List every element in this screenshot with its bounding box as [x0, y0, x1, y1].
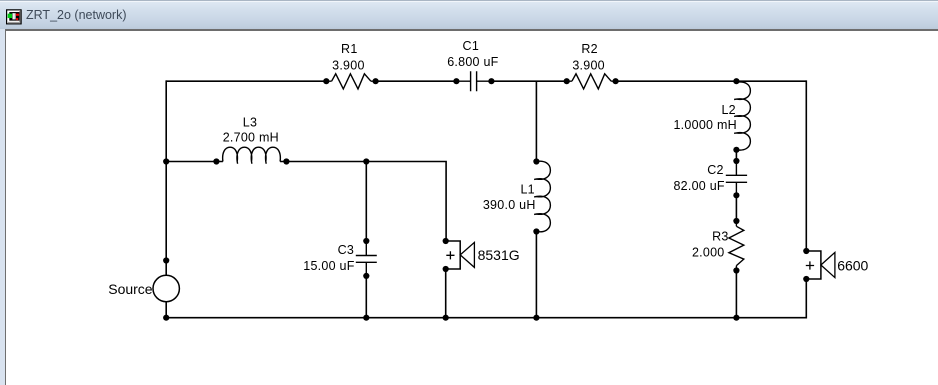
svg-text:1.0000 mH: 1.0000 mH [673, 118, 736, 132]
application icon [6, 9, 22, 25]
svg-text:3.900: 3.900 [332, 58, 365, 72]
label C1 [447, 39, 498, 69]
junction dot R3 bottom [733, 267, 739, 273]
junction dot R1 right [373, 78, 379, 84]
wire right riser from bottom rail to tweeter minus [805, 279, 807, 319]
wire L1 top stub [535, 81, 537, 161]
speaker U2 6600 symbol [806, 251, 835, 279]
junction dot L3 right [283, 158, 289, 164]
resistor R3 [729, 221, 744, 271]
wire top rail C1-R2 segment [491, 80, 566, 82]
junction dot U2 minus [803, 276, 809, 282]
junction dot node left mid [163, 158, 169, 164]
junction dot U1 minus [443, 266, 449, 272]
svg-text:390.0 uH: 390.0 uH [483, 198, 536, 212]
wire C3 branch lower [365, 276, 367, 318]
label L3 [223, 115, 279, 144]
window title text [26, 8, 127, 22]
junction dot U2 plus [803, 248, 809, 254]
wire source stubs [165, 261, 167, 318]
window title bar [0, 0, 938, 29]
junction dot C1 left [453, 78, 459, 84]
inductor L2 [734, 82, 750, 150]
svg-text:L2: L2 [721, 103, 735, 117]
svg-text:L1: L1 [520, 182, 534, 196]
junction dot rail C3 [363, 315, 369, 321]
junction dot source bottom [163, 315, 169, 321]
junction dot L2 top [733, 78, 739, 84]
svg-text:6.800 uF: 6.800 uF [447, 55, 498, 69]
wire top rail left segment [166, 80, 326, 82]
wire top rail R1-C1 segment [376, 80, 457, 82]
svg-text:C3: C3 [338, 243, 354, 257]
junction dot rail U1 [443, 315, 449, 321]
junction dot rail R3 [733, 315, 739, 321]
label R3 [692, 229, 729, 259]
capacitor C1 [456, 71, 491, 91]
capacitor C2 [726, 161, 747, 195]
junction dot L1 bottom [533, 228, 539, 234]
svg-text:Source: Source [108, 281, 153, 297]
wire 8531G to bottom rail [445, 269, 447, 318]
wire bottom rail [166, 317, 806, 319]
capacitor C3 [356, 241, 377, 276]
wire top rail R2 to right corner [616, 80, 807, 82]
speaker U1 8531G symbol [446, 241, 475, 269]
svg-text:3.900: 3.900 [572, 58, 605, 72]
junction dot C2 bottom [733, 192, 739, 198]
junction dot C1 right [488, 78, 494, 84]
svg-text:8531G: 8531G [478, 247, 520, 263]
junction dot C3 bottom [363, 273, 369, 279]
junction dot L1 top [533, 158, 539, 164]
wire C3 branch upper [365, 162, 367, 242]
junction dot R2 right [613, 78, 619, 84]
label C2 [673, 163, 724, 193]
wire L2-C2 segment [735, 150, 737, 161]
wire C2-R3 segment [735, 195, 737, 221]
inductor L1 [534, 161, 550, 232]
label L1 [483, 182, 536, 212]
source V1 circle [153, 275, 179, 301]
junction dot C3 top [363, 238, 369, 244]
junction dot rail L1 [533, 315, 539, 321]
wire L1 to bottom rail [535, 232, 537, 318]
resistor R2 [567, 74, 616, 89]
svg-text:2.000: 2.000 [692, 245, 725, 259]
canvas top border [5, 29, 938, 31]
wire middle node horizontal (L3 output) [166, 162, 446, 242]
label R1 [332, 42, 365, 72]
svg-text:2.700 mH: 2.700 mH [223, 130, 279, 144]
canvas left border [5, 29, 7, 385]
junction dot source top [163, 257, 169, 263]
window left frame [0, 29, 5, 385]
label R2 [572, 42, 605, 72]
junction dot L2 bottom [733, 147, 739, 153]
wire left vertical [165, 80, 167, 260]
junction dot node mid T [363, 158, 369, 164]
junction dot R2 left [564, 78, 570, 84]
junction dot U1 plus [443, 238, 449, 244]
svg-text:82.00 uF: 82.00 uF [673, 179, 724, 193]
junction dot R3 top [733, 218, 739, 224]
svg-text:R1: R1 [341, 42, 357, 56]
wire R3 to bottom rail [735, 271, 737, 318]
junction dot C2 top [733, 158, 739, 164]
junction dot R1 left [323, 78, 329, 84]
resistor R1 [326, 74, 375, 89]
svg-text:R3: R3 [712, 229, 728, 243]
svg-text:L3: L3 [243, 115, 257, 129]
svg-text:C1: C1 [463, 39, 479, 53]
svg-text:R2: R2 [581, 42, 597, 56]
svg-text:15.00 uF: 15.00 uF [303, 259, 354, 273]
svg-text:6600: 6600 [837, 257, 868, 273]
label L2 [673, 103, 736, 132]
label C3 [303, 243, 354, 273]
junction dot L3 left [213, 158, 219, 164]
wire right vertical to tweeter [805, 80, 807, 251]
inductor L3 [216, 161, 286, 163]
svg-text:C2: C2 [707, 163, 723, 177]
